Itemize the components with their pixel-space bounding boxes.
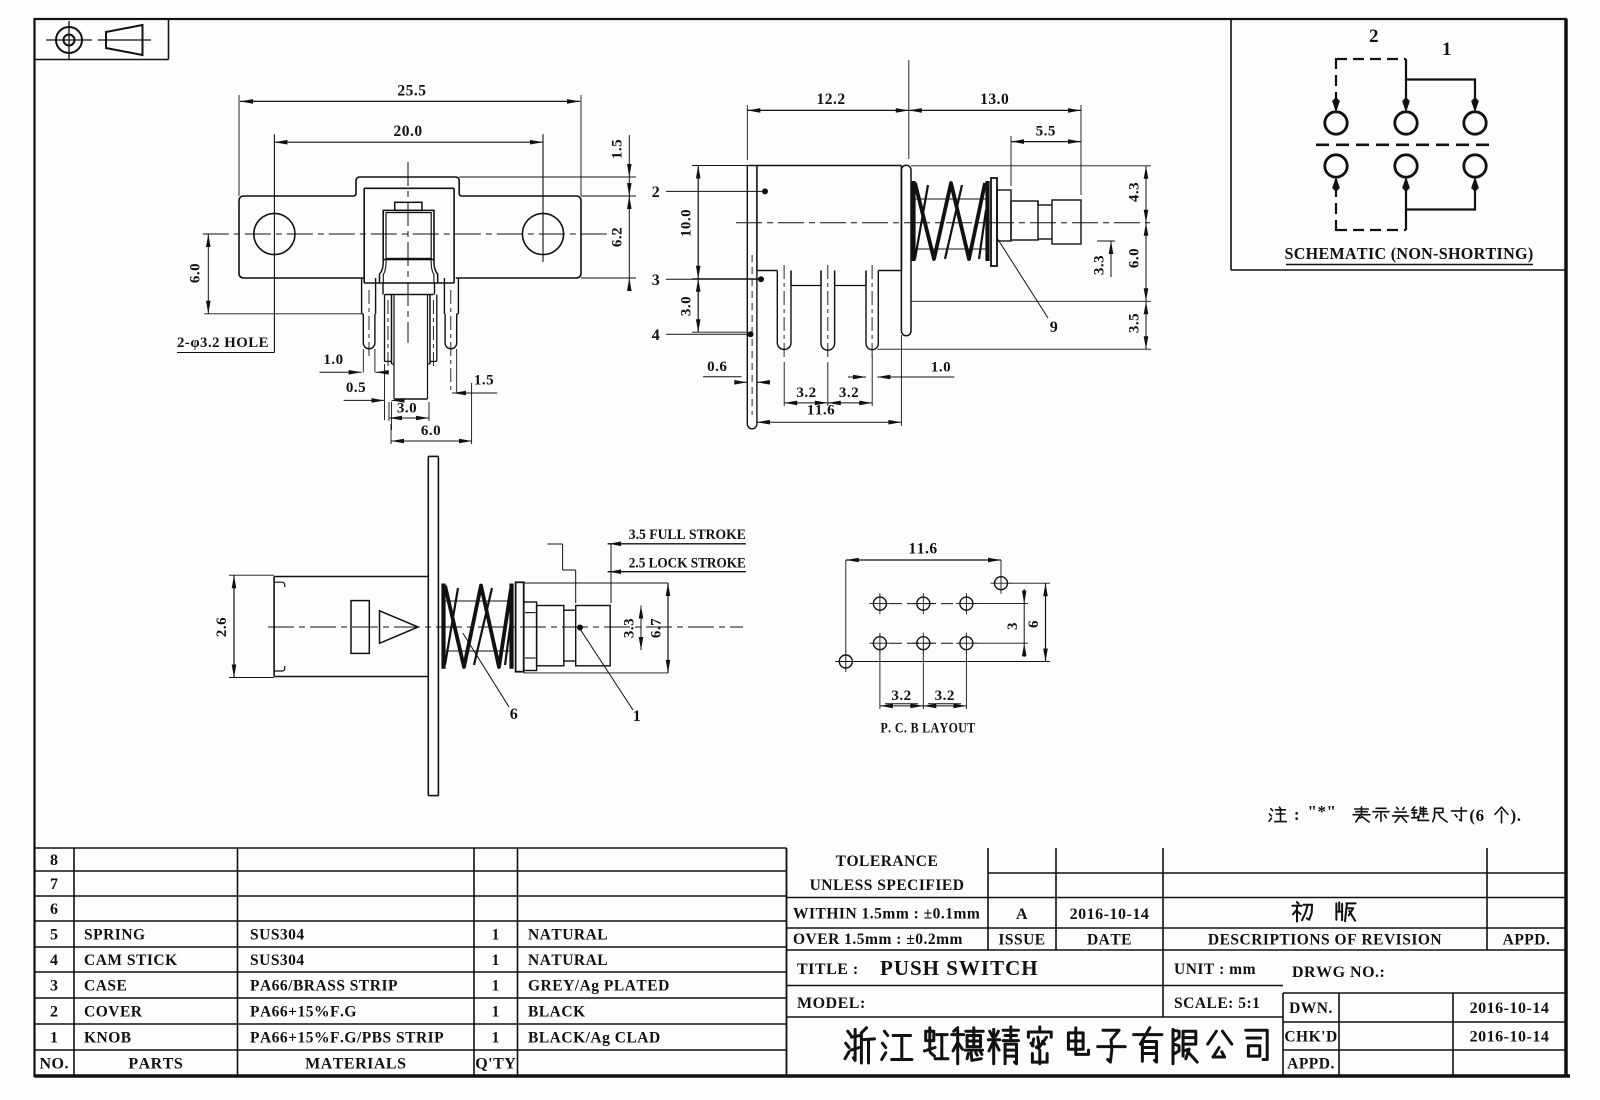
svg-text:UNLESS SPECIFIED: UNLESS SPECIFIED bbox=[810, 877, 965, 894]
svg-text:DATE: DATE bbox=[1087, 932, 1132, 949]
svg-text:CHK'D: CHK'D bbox=[1284, 1029, 1337, 1046]
svg-text:1: 1 bbox=[492, 927, 500, 944]
svg-text:2016-10-14: 2016-10-14 bbox=[1470, 1000, 1550, 1017]
svg-text:UNIT : mm: UNIT : mm bbox=[1174, 961, 1256, 978]
svg-text:Q'TY: Q'TY bbox=[475, 1056, 516, 1073]
svg-text:PUSH SWITCH: PUSH SWITCH bbox=[880, 956, 1039, 980]
svg-text:PA66/BRASS STRIP: PA66/BRASS STRIP bbox=[250, 978, 398, 995]
svg-text:13.0: 13.0 bbox=[980, 91, 1009, 108]
svg-text:"*": "*" bbox=[1308, 802, 1337, 821]
svg-text:MATERIALS: MATERIALS bbox=[305, 1056, 406, 1073]
svg-text:12.2: 12.2 bbox=[816, 91, 845, 108]
svg-text:TOLERANCE: TOLERANCE bbox=[836, 853, 939, 870]
svg-text:0.5: 0.5 bbox=[346, 380, 366, 396]
svg-text:1: 1 bbox=[492, 1004, 500, 1021]
svg-text:).: ). bbox=[1511, 806, 1522, 825]
svg-text:3.2: 3.2 bbox=[935, 688, 955, 704]
svg-text:9: 9 bbox=[1050, 319, 1059, 336]
svg-text:1.5: 1.5 bbox=[610, 139, 626, 159]
svg-text:PA66+15%F.G/PBS STRIP: PA66+15%F.G/PBS STRIP bbox=[250, 1030, 444, 1047]
svg-text:APPD.: APPD. bbox=[1503, 932, 1551, 949]
svg-text:2: 2 bbox=[1369, 26, 1379, 47]
svg-text:1.0: 1.0 bbox=[323, 352, 343, 368]
svg-text:CAM STICK: CAM STICK bbox=[84, 952, 178, 969]
svg-text:3.0: 3.0 bbox=[397, 401, 417, 417]
svg-text:DESCRIPTIONS OF REVISION: DESCRIPTIONS OF REVISION bbox=[1208, 932, 1442, 949]
svg-text:SPRING: SPRING bbox=[84, 927, 146, 944]
svg-text:2016-10-14: 2016-10-14 bbox=[1470, 1029, 1550, 1046]
svg-text:NO.: NO. bbox=[39, 1056, 69, 1073]
svg-text:11.6: 11.6 bbox=[908, 541, 937, 558]
svg-text:NATURAL: NATURAL bbox=[528, 927, 608, 944]
svg-text:6.2: 6.2 bbox=[610, 227, 626, 247]
svg-text:1: 1 bbox=[492, 952, 500, 969]
svg-text:CASE: CASE bbox=[84, 978, 127, 995]
svg-text:1: 1 bbox=[492, 978, 500, 995]
svg-text:SCHEMATIC (NON-SHORTING): SCHEMATIC (NON-SHORTING) bbox=[1285, 244, 1534, 263]
svg-text:APPD.: APPD. bbox=[1287, 1056, 1335, 1073]
svg-text:1: 1 bbox=[492, 1030, 500, 1047]
svg-text:20.0: 20.0 bbox=[393, 123, 422, 140]
svg-text:OVER 1.5mm : ±0.2mm: OVER 1.5mm : ±0.2mm bbox=[793, 931, 963, 948]
svg-text:6.0: 6.0 bbox=[188, 263, 204, 283]
svg-text:25.5: 25.5 bbox=[397, 83, 426, 100]
svg-text:3.5 FULL STROKE: 3.5 FULL STROKE bbox=[629, 527, 746, 543]
svg-text:4.3: 4.3 bbox=[1127, 182, 1143, 202]
svg-text:11.6: 11.6 bbox=[807, 403, 835, 419]
svg-text:3.2: 3.2 bbox=[839, 385, 859, 401]
svg-text:1: 1 bbox=[50, 1030, 59, 1047]
svg-text:3.2: 3.2 bbox=[796, 385, 816, 401]
svg-text:7: 7 bbox=[50, 876, 59, 893]
svg-text:3.2: 3.2 bbox=[891, 688, 911, 704]
svg-text:SUS304: SUS304 bbox=[250, 927, 305, 944]
svg-text:5: 5 bbox=[50, 927, 59, 944]
svg-text:(6: (6 bbox=[1469, 806, 1484, 825]
svg-text:BLACK: BLACK bbox=[528, 1004, 586, 1021]
svg-text:NATURAL: NATURAL bbox=[528, 952, 608, 969]
svg-text:P. C. B LAYOUT: P. C. B LAYOUT bbox=[881, 721, 976, 737]
svg-text:2.6: 2.6 bbox=[214, 617, 230, 637]
svg-text:COVER: COVER bbox=[84, 1004, 143, 1021]
svg-text:GREY/Ag PLATED: GREY/Ag PLATED bbox=[528, 978, 670, 995]
svg-text:2: 2 bbox=[50, 1004, 59, 1021]
svg-text:PA66+15%F.G: PA66+15%F.G bbox=[250, 1004, 357, 1021]
svg-text:1: 1 bbox=[1442, 39, 1452, 60]
svg-text:6.0: 6.0 bbox=[421, 423, 441, 439]
svg-text:2016-10-14: 2016-10-14 bbox=[1070, 906, 1150, 923]
svg-text:1.0: 1.0 bbox=[931, 360, 951, 376]
svg-text:TITLE :: TITLE : bbox=[797, 961, 859, 978]
svg-text:2-φ3.2 HOLE: 2-φ3.2 HOLE bbox=[177, 335, 269, 351]
svg-text:SUS304: SUS304 bbox=[250, 952, 305, 969]
svg-text:10.0: 10.0 bbox=[679, 209, 695, 237]
svg-text:3: 3 bbox=[652, 272, 661, 289]
svg-text:6: 6 bbox=[510, 706, 519, 723]
svg-text:MODEL:: MODEL: bbox=[797, 995, 866, 1012]
svg-text:DWN.: DWN. bbox=[1289, 1000, 1333, 1017]
svg-text:6: 6 bbox=[50, 901, 59, 918]
svg-text:6: 6 bbox=[1026, 620, 1042, 628]
svg-text:3.3: 3.3 bbox=[1092, 255, 1108, 275]
svg-text:BLACK/Ag CLAD: BLACK/Ag CLAD bbox=[528, 1030, 661, 1047]
svg-text:DRWG NO.:: DRWG NO.: bbox=[1292, 964, 1385, 981]
svg-text:5.5: 5.5 bbox=[1036, 124, 1056, 140]
svg-text::: : bbox=[1294, 805, 1300, 824]
svg-text:2: 2 bbox=[652, 184, 661, 201]
svg-text:6.7: 6.7 bbox=[649, 618, 665, 638]
svg-text:SCALE: 5:1: SCALE: 5:1 bbox=[1174, 995, 1260, 1012]
svg-text:2.5 LOCK STROKE: 2.5 LOCK STROKE bbox=[629, 556, 746, 572]
svg-text:WITHIN 1.5mm : ±0.1mm: WITHIN 1.5mm : ±0.1mm bbox=[793, 906, 980, 923]
svg-text:PARTS: PARTS bbox=[128, 1056, 183, 1073]
svg-text:0.6: 0.6 bbox=[707, 359, 727, 375]
svg-text:4: 4 bbox=[652, 327, 661, 344]
svg-text:1.5: 1.5 bbox=[474, 373, 494, 389]
svg-text:3.5: 3.5 bbox=[1127, 313, 1143, 333]
svg-text:6.0: 6.0 bbox=[1127, 248, 1143, 268]
svg-text:3: 3 bbox=[50, 978, 59, 995]
svg-text:3: 3 bbox=[1005, 622, 1021, 630]
svg-text:ISSUE: ISSUE bbox=[998, 932, 1045, 949]
svg-text:3.3: 3.3 bbox=[622, 618, 638, 638]
svg-text:1: 1 bbox=[633, 708, 642, 725]
svg-text:KNOB: KNOB bbox=[84, 1030, 132, 1047]
svg-text:8: 8 bbox=[50, 852, 59, 869]
svg-text:3.0: 3.0 bbox=[679, 296, 695, 316]
svg-text:4: 4 bbox=[50, 952, 59, 969]
svg-text:A: A bbox=[1016, 906, 1028, 923]
